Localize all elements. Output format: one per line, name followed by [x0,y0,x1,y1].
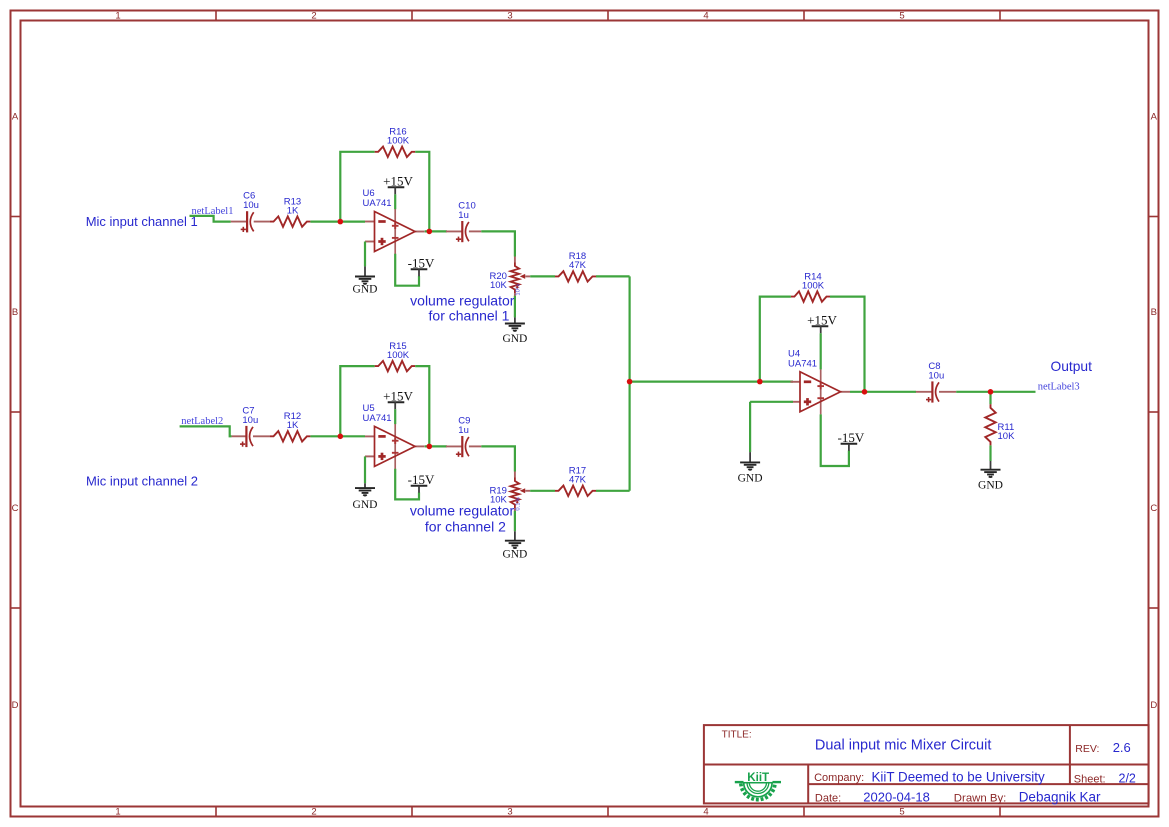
svg-text:2020-04-18: 2020-04-18 [863,789,930,804]
svg-text:GND: GND [978,480,1003,492]
svg-text:10u: 10u [243,200,259,211]
svg-text:10u: 10u [242,415,258,426]
wire R12 to U5 node [310,435,365,437]
wire R20 to ground [514,296,516,318]
wire C9 to R19 [481,446,515,471]
pin C6 to R13 [254,221,270,223]
svg-text:1K: 1K [287,420,299,431]
wire U5 output to C9 [425,445,447,447]
pin C8 left [916,391,933,393]
potentiometer R20 [489,257,530,300]
power -15V [838,430,865,451]
wire C8 to netLabel3 [956,391,1035,393]
wire mix bus vertical [628,276,630,490]
op-amp U6 (UA741) [363,188,425,254]
pin C7 to R12 [253,435,270,437]
wire R13 to U6 node [310,221,365,223]
pin C7 left [232,435,247,437]
svg-text:UA741: UA741 [363,198,392,209]
wire R17 to mix bus [596,490,630,492]
wire R15 left leg [340,366,374,436]
ground [502,531,527,560]
ground [502,317,527,345]
svg-text:Output: Output [1051,359,1093,374]
wire U6 V- to -15V [395,254,419,286]
svg-text:Mic input channel 2: Mic input channel 2 [86,474,198,489]
capacitor C10 [456,201,476,243]
junction U5 input node [338,434,344,440]
pin C9 right [469,445,481,447]
op-amp U5 (UA741) [363,403,425,469]
svg-text:2: 2 [311,11,316,22]
resistor R15 [375,341,416,371]
wire U6 plus input to ground [364,242,366,267]
wire +15V to U4 [820,333,822,369]
wire +15V to U6 [394,194,396,209]
wire R11 to ground [989,445,991,461]
svg-text:GND: GND [353,284,378,296]
wire R20 wiper to R18 [530,275,555,277]
svg-text:47K: 47K [569,475,587,486]
wire U5 plus input to ground [364,456,366,483]
wire R19 to ground [514,511,516,532]
sheet cell [1074,772,1136,786]
svg-text:Drawn By:: Drawn By: [954,792,1007,804]
pin C10 left [446,230,462,232]
svg-text:GND: GND [353,499,378,511]
rev cell [1075,740,1130,755]
svg-text:netLabel3: netLabel3 [1038,382,1080,393]
svg-text:-15V: -15V [408,255,435,270]
wire U4 plus input down to ground [749,402,751,452]
resistor R13 [270,196,310,226]
svg-text:4: 4 [703,11,708,22]
svg-text:3: 3 [507,807,512,818]
junction U6 input node [338,219,344,225]
svg-text:for channel 2: for channel 2 [425,518,506,534]
wire U5 V- to -15V [395,469,419,500]
svg-text:KiiT: KiiT [747,771,769,784]
svg-text:100K: 100K [387,136,410,147]
wire R18 to mix bus [596,275,630,277]
op-amp U4 (UA741) [788,349,850,415]
power -15V [408,472,435,493]
resistor R14 [791,271,830,301]
resistor R16 [375,127,416,157]
svg-text:1u: 1u [458,210,469,221]
resistor R12 [270,411,310,441]
svg-text:10u: 10u [928,370,944,381]
svg-text:2.6: 2.6 [1113,740,1131,755]
ground [353,266,378,295]
ground [738,452,763,484]
svg-text:Debagnik Kar: Debagnik Kar [1019,789,1101,804]
svg-text:10K: 10K [998,431,1016,442]
pin C6 left [231,221,247,223]
capacitor C7 [240,405,258,447]
junction U5 output node [427,444,433,450]
svg-text:100K: 100K [387,350,410,361]
svg-text:Dual input mic Mixer Circuit: Dual input mic Mixer Circuit [815,737,991,753]
svg-text:1: 1 [115,807,120,818]
resistor R17 [555,466,596,496]
junction U6 output node [427,229,433,235]
svg-text:5: 5 [899,807,904,818]
svg-text:10K: 10K [490,280,508,291]
wire U6 output to C10 [425,230,447,232]
junction R14 tap node [757,379,763,385]
svg-text:Sheet:: Sheet: [1074,773,1106,785]
resistor R18 [555,251,596,281]
ground [353,483,378,511]
junction U4 output node [862,389,868,395]
svg-text:volume regulator: volume regulator [410,503,515,519]
title block [704,725,1149,803]
potentiometer R19 [489,472,530,515]
svg-text:Company:: Company: [814,772,864,784]
svg-text:TITLE:: TITLE: [722,730,752,741]
svg-text:2: 2 [311,807,316,818]
resistor R11 [985,404,1015,445]
svg-text:C: C [12,503,19,514]
wire R14 right leg [830,297,865,392]
svg-text:47K: 47K [569,260,587,271]
wire +15V to U5 [394,409,396,424]
svg-text:volume regulator: volume regulator [410,292,515,308]
svg-text:Mic input channel 1: Mic input channel 1 [86,214,198,229]
KiiT logo [735,770,781,801]
svg-text:1K: 1K [287,205,299,216]
svg-text:B: B [1151,307,1157,318]
svg-text:100K: 100K [802,280,825,291]
svg-text:Date:: Date: [815,792,841,804]
svg-text:D: D [1150,700,1157,711]
svg-text:for channel 1: for channel 1 [429,308,510,324]
svg-text:+15V: +15V [383,174,413,189]
power -15V [408,255,435,276]
svg-text:5: 5 [899,11,904,22]
svg-text:+15V: +15V [807,312,837,327]
svg-text:B: B [12,307,18,318]
wire netLabel1 to C6 [190,216,231,222]
svg-text:UA741: UA741 [788,358,817,369]
ground [978,461,1003,492]
wire R14 left leg [760,297,791,382]
svg-text:+15V: +15V [383,388,413,403]
wire mix bus to U4 input [630,381,793,383]
svg-text:0.1%: 0.1% [516,497,522,510]
wire R15 right leg [415,366,429,446]
pin C10 right [469,230,481,232]
wire R19 wiper to R17 [530,490,555,492]
svg-text:3: 3 [507,11,512,22]
pin C8 right [939,391,956,393]
capacitor C9 [456,416,471,458]
svg-text:A: A [12,112,19,123]
svg-text:2/2: 2/2 [1119,772,1136,786]
svg-text:GND: GND [738,473,763,485]
svg-text:10%: 10% [516,284,522,296]
power +15V [383,174,413,195]
wire netLabel2 to C7 [180,426,232,436]
wire C10 to R20 [481,231,515,256]
wire U4 plus input left [750,401,793,403]
power +15V [807,312,837,333]
junction output node [988,389,994,395]
pin C9 left [446,445,462,447]
wire R16 right leg [415,152,429,232]
junction mix bus node [627,379,633,385]
svg-text:GND: GND [502,549,527,561]
wire U4 output to C8 [850,391,916,393]
date cell [815,789,1101,804]
title text [722,730,992,754]
svg-text:1u: 1u [458,425,469,436]
capacitor C6 [241,191,259,233]
wire U4 V- to -15V [821,414,849,466]
svg-text:GND: GND [502,333,527,345]
svg-text:4: 4 [703,807,708,818]
svg-text:REV:: REV: [1075,743,1099,755]
svg-text:-15V: -15V [838,430,865,445]
svg-text:C: C [1150,503,1157,514]
company cell [814,770,1045,785]
svg-text:A: A [1151,112,1158,123]
wire node to R11 [989,392,991,405]
capacitor C8 [926,361,944,403]
svg-text:1: 1 [115,11,120,22]
svg-text:D: D [12,700,19,711]
svg-text:-15V: -15V [408,472,435,487]
svg-text:UA741: UA741 [363,413,392,424]
svg-text:KiiT Deemed to be University: KiiT Deemed to be University [872,770,1045,785]
wire R16 left leg [340,152,374,222]
power +15V [383,388,413,409]
